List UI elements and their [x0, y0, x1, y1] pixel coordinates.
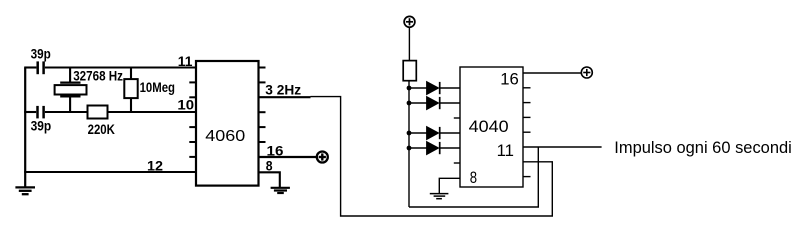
- pin stubs U2 right: [523, 88, 531, 177]
- capacitor C1 39p: [38, 61, 44, 74]
- diode D3: [409, 127, 460, 139]
- IC U2 4040: [460, 67, 523, 187]
- svg-text:10Meg: 10Meg: [140, 80, 175, 95]
- wire: VCC to pull-up resistor: [408, 27, 410, 60]
- power VCC 4040: [581, 67, 592, 78]
- resistor R1 10Meg: [124, 68, 137, 113]
- capacitor C2 39p: [38, 106, 44, 119]
- wire: left ground rail: [24, 68, 26, 188]
- svg-text:8: 8: [470, 168, 477, 187]
- svg-text:10: 10: [177, 98, 194, 113]
- wire: pin 10 row: [24, 111, 197, 113]
- svg-text:39p: 39p: [31, 119, 52, 134]
- junction dots diode bus: [407, 86, 412, 151]
- power VCC 4060: [317, 152, 328, 163]
- svg-text:4040: 4040: [469, 117, 509, 136]
- ground GND1: [15, 187, 35, 194]
- ground GND2: [271, 188, 290, 193]
- wire: U2 pin 8 to ground: [439, 178, 460, 193]
- wire: pin 11 feedback to diode bus: [409, 147, 538, 207]
- diode D1: [409, 82, 460, 94]
- svg-text:32768 Hz: 32768 Hz: [73, 68, 123, 83]
- svg-text:3 2Hz: 3 2Hz: [265, 82, 301, 97]
- svg-text:220K: 220K: [88, 122, 116, 137]
- svg-text:4060: 4060: [205, 128, 245, 145]
- wire: 2Hz interconnect down: [311, 97, 553, 216]
- IC U1 4060: [196, 61, 259, 186]
- power VCC diode bus: [404, 16, 415, 27]
- crystal Q1 32768 Hz: [55, 68, 87, 113]
- svg-text:Impulso ogni 60 secondi: Impulso ogni 60 secondi: [614, 138, 792, 157]
- resistor R2 220K: [88, 106, 108, 119]
- wire: pin 16 row: [259, 156, 317, 158]
- diode D4: [409, 142, 460, 154]
- svg-text:16: 16: [500, 70, 519, 89]
- wire: pin 3 output 2Hz: [259, 96, 311, 98]
- pin stubs U1 left: [189, 82, 196, 156]
- wire: U2 pin 11 output: [523, 146, 602, 148]
- svg-text:16: 16: [267, 143, 284, 158]
- diode D2: [409, 97, 460, 109]
- svg-text:11: 11: [497, 141, 514, 160]
- wire: pin 11 row: [24, 66, 197, 68]
- wire: pin 12 row: [24, 171, 197, 173]
- resistor R3 pull-up: [403, 61, 416, 81]
- ground GND3: [430, 194, 449, 199]
- wire: U2 pin 16 to VCC: [523, 72, 581, 74]
- pin stubs U2 left: [454, 118, 460, 163]
- wire: pin 8 to ground: [259, 172, 280, 187]
- pin stubs U1 right: [259, 68, 266, 143]
- svg-text:39p: 39p: [31, 47, 51, 62]
- svg-text:11: 11: [178, 54, 193, 69]
- wire: diode bus column: [408, 81, 410, 207]
- svg-text:8: 8: [266, 159, 273, 174]
- svg-text:12: 12: [147, 159, 163, 174]
